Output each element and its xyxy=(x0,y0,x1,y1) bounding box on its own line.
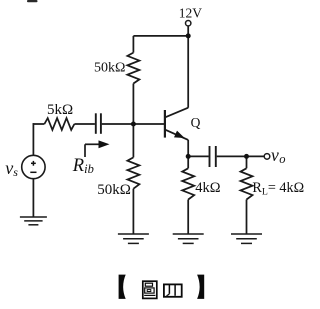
svg-text:12V: 12V xyxy=(179,5,203,20)
svg-text:RL= 4kΩ: RL= 4kΩ xyxy=(252,180,304,198)
svg-text:4kΩ: 4kΩ xyxy=(195,180,221,196)
svg-text:50kΩ: 50kΩ xyxy=(94,61,125,76)
svg-text:Q: Q xyxy=(191,115,201,130)
svg-text:50kΩ: 50kΩ xyxy=(97,182,131,198)
svg-text:5kΩ: 5kΩ xyxy=(47,102,73,118)
